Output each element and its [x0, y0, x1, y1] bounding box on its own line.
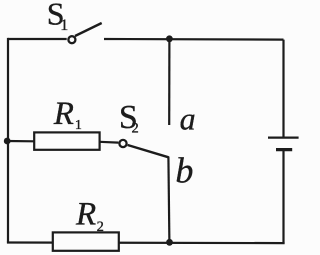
svg-text:2: 2	[97, 219, 104, 235]
switch S2 pivot circle	[119, 140, 126, 147]
battery long plate	[268, 137, 299, 139]
svg-text:b: b	[175, 151, 193, 191]
svg-text:R: R	[75, 197, 96, 233]
wire node b vertical	[168, 157, 169, 244]
wire right side lower	[282, 151, 284, 244]
svg-text:R: R	[53, 96, 74, 132]
wire top-right segment	[104, 38, 284, 41]
resistor R2 box	[53, 232, 119, 250]
wire left side	[7, 38, 9, 243]
switch S1 pivot circle	[68, 36, 75, 43]
svg-text:1: 1	[75, 118, 82, 133]
battery short plate	[276, 148, 292, 151]
junction dot bottom (node b branch)	[166, 239, 173, 246]
switch S1 lever	[75, 23, 102, 36]
junction dot left (R1 branch)	[4, 138, 11, 145]
switch S2 lever	[128, 145, 169, 157]
wire right side upper	[282, 40, 284, 137]
wire bottom	[7, 241, 285, 244]
svg-text:a: a	[180, 101, 196, 137]
resistor R1 box	[34, 132, 99, 149]
wire top-left segment	[8, 38, 67, 40]
wire R1 row left	[7, 140, 34, 143]
junction dot top (node a branch)	[166, 35, 173, 42]
wire R1 to S2	[100, 141, 119, 144]
svg-text:1: 1	[60, 17, 68, 34]
wire node a vertical	[168, 39, 170, 125]
svg-text:2: 2	[132, 120, 139, 136]
